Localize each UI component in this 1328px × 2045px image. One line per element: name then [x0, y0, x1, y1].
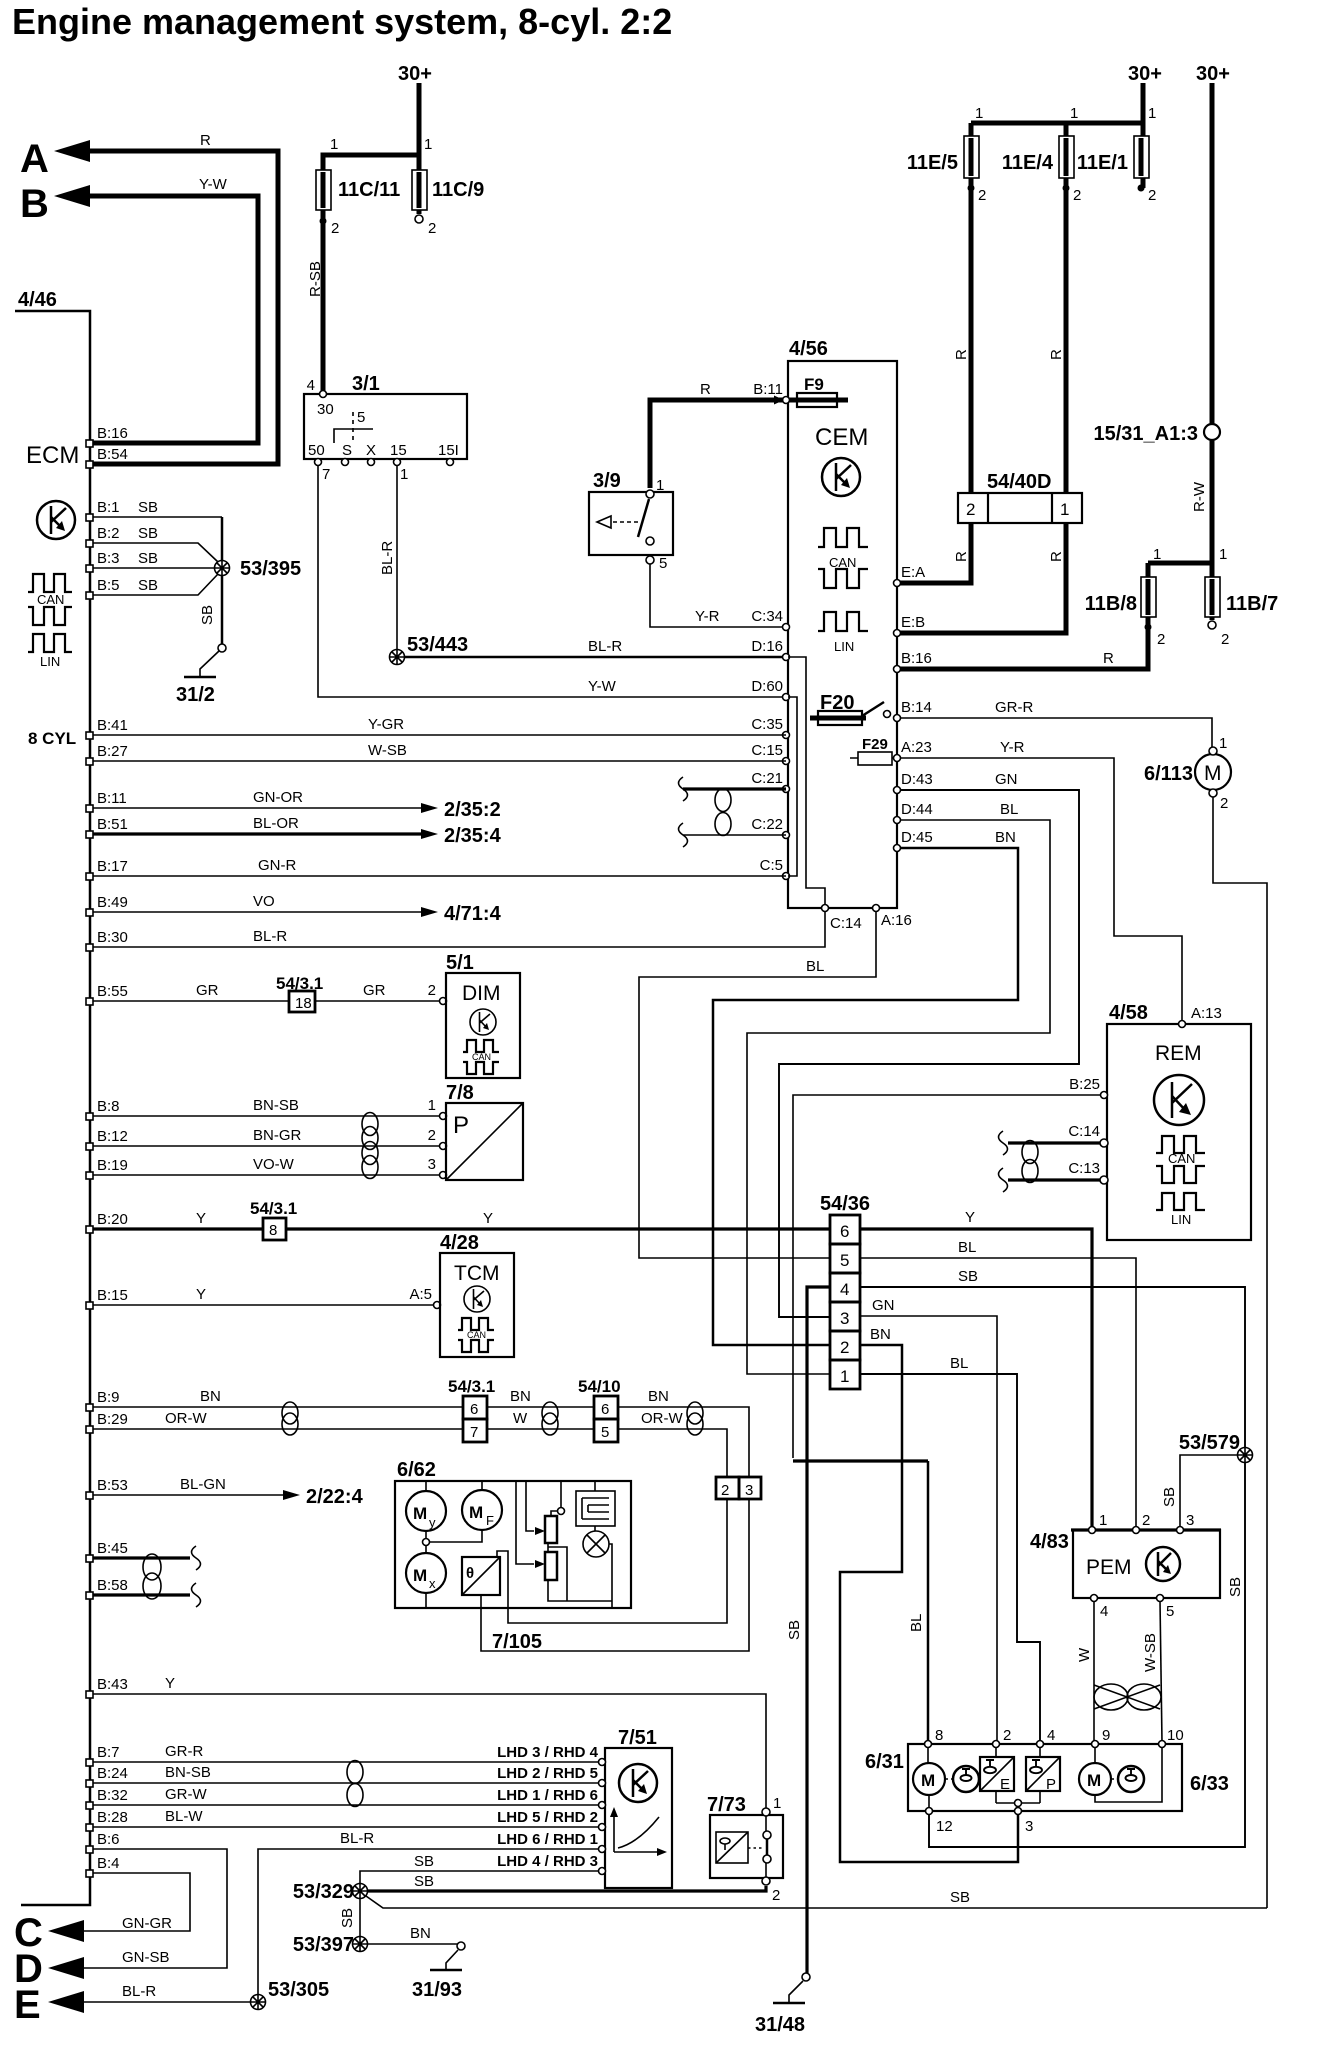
svg-text:BN-SB: BN-SB — [253, 1097, 299, 1114]
wire R-W to 11B fuses — [1148, 440, 1212, 625]
wire BL-GN to 2/22:4 — [93, 1494, 283, 1496]
wire R 11E/4 to 54/40D — [1064, 188, 1069, 493]
svg-text:BN-SB: BN-SB — [165, 1764, 211, 1781]
svg-text:5: 5 — [840, 1251, 849, 1270]
svg-text:θ: θ — [466, 1565, 474, 1582]
svg-text:X: X — [366, 442, 376, 459]
ECM pin B:45 — [86, 1555, 93, 1562]
svg-text:VO-W: VO-W — [253, 1156, 295, 1173]
svg-text:3: 3 — [428, 1156, 436, 1173]
svg-text:Y-W: Y-W — [199, 176, 228, 193]
stub B:45 with break — [93, 1556, 190, 1559]
twisted pair C:21/C:22 — [715, 789, 731, 812]
svg-text:E:B: E:B — [901, 614, 925, 631]
wire Y-R from 3/9 pin 5 to CEM C:34 — [650, 564, 786, 627]
svg-text:VO: VO — [253, 893, 275, 910]
svg-text:B:8: B:8 — [97, 1098, 120, 1115]
wire BL-OR to 2/35:4 — [93, 832, 421, 835]
svg-text:SB: SB — [786, 1620, 803, 1640]
wire BL 54/36-5 to PEM pin 2 — [860, 1258, 1136, 1528]
svg-text:A: A — [20, 137, 49, 181]
svg-text:CAN: CAN — [829, 555, 856, 570]
6/31 pin 3 — [1015, 1808, 1022, 1815]
6/62 temp sensor — [462, 1557, 500, 1595]
svg-text:1: 1 — [1070, 105, 1078, 122]
REM pin C:14 — [1100, 1139, 1108, 1147]
wire Y-W from 3/1 pin 50 to CEM D:60 — [318, 466, 786, 697]
svg-text:F: F — [486, 1513, 494, 1528]
splice 53/329 — [353, 1884, 368, 1899]
svg-text:B:6: B:6 — [97, 1831, 120, 1848]
svg-text:2: 2 — [772, 1887, 780, 1904]
svg-text:GR-R: GR-R — [165, 1743, 203, 1760]
svg-text:31/48: 31/48 — [755, 2014, 805, 2036]
svg-text:GN-SB: GN-SB — [122, 1949, 170, 1966]
6/31 pin 2 — [993, 1741, 1000, 1748]
svg-text:1: 1 — [424, 136, 432, 153]
wire Y B:15 to TCM A:5 — [93, 1304, 434, 1306]
fuse 11E/4 — [1059, 136, 1074, 178]
twisted pair B:9/B:29 — [282, 1402, 298, 1424]
ECM pin B:54 — [86, 461, 93, 468]
ECM pin B:3 — [86, 565, 93, 572]
wire 30+ feed — [323, 83, 419, 393]
wire BL CEM D:44 to 54/36-1 — [747, 820, 1050, 1374]
CEM left pin C:35 — [783, 732, 790, 739]
3/9 switch contacts — [597, 516, 611, 528]
svg-text:4/56: 4/56 — [789, 338, 828, 360]
ECM pin B:58 — [86, 1592, 93, 1599]
svg-text:B:32: B:32 — [97, 1787, 128, 1804]
svg-text:11B/7: 11B/7 — [1226, 593, 1278, 615]
6/31 pin 9 — [1092, 1741, 1099, 1748]
svg-text:1: 1 — [773, 1795, 781, 1812]
svg-text:B:11: B:11 — [97, 790, 127, 807]
ECM pin B:7 — [86, 1759, 93, 1766]
svg-text:C:13: C:13 — [1068, 1160, 1100, 1177]
ECM pin B:12 — [86, 1143, 93, 1150]
svg-text:SB: SB — [414, 1873, 434, 1890]
wire SB 54/36-4 left to ground 31/48 — [807, 1287, 830, 1973]
svg-text:Y: Y — [196, 1210, 206, 1227]
wire VO-W to 7/8 pin 3 — [93, 1174, 440, 1176]
svg-text:9: 9 — [1102, 1727, 1110, 1744]
connector 15/31_A1:3 — [1204, 424, 1220, 440]
svg-text:7: 7 — [322, 466, 330, 483]
wire Y 54/3.1 to 54/36-6 — [286, 1227, 830, 1230]
6/31 valve P — [1026, 1757, 1060, 1791]
ECM pin B:49 — [86, 909, 93, 916]
svg-text:C:14: C:14 — [1068, 1123, 1100, 1140]
svg-text:7: 7 — [470, 1424, 478, 1441]
svg-text:GR: GR — [363, 982, 386, 999]
6/31 motor M right — [1079, 1763, 1111, 1795]
wire OR-W 54/10 to connector 7/105-2 — [618, 1429, 727, 1477]
svg-text:B:4: B:4 — [97, 1855, 120, 1872]
svg-text:4: 4 — [1047, 1727, 1055, 1744]
svg-text:LHD 2 / RHD 5: LHD 2 / RHD 5 — [497, 1765, 598, 1782]
svg-text:A:23: A:23 — [901, 739, 932, 756]
ECM pin B:1 — [86, 514, 93, 521]
svg-text:D:43: D:43 — [901, 771, 933, 788]
wire 30+ bus to fuses — [971, 83, 1143, 188]
ECM pin B:41 — [86, 732, 93, 739]
svg-text:54/3.1: 54/3.1 — [448, 1377, 495, 1396]
svg-text:B:54: B:54 — [97, 446, 128, 463]
svg-text:11C/9: 11C/9 — [432, 179, 484, 201]
svg-text:Y: Y — [165, 1675, 175, 1692]
svg-text:8: 8 — [269, 1222, 277, 1239]
wire Y B:43 to 7/73 pin 1 — [93, 1694, 766, 1808]
svg-text:M: M — [413, 1566, 427, 1585]
svg-text:1: 1 — [1219, 735, 1227, 752]
ECM pin B:17 — [86, 873, 93, 880]
ECM pin B:2 — [86, 540, 93, 547]
svg-text:B:55: B:55 — [97, 983, 128, 1000]
wire R 54/40D-2 to CEM E:A — [900, 523, 971, 583]
fuse 11B/8 — [1141, 577, 1156, 617]
svg-text:C:34: C:34 — [751, 608, 783, 625]
svg-text:50: 50 — [308, 442, 325, 459]
connector 7/105 pins 2/3 — [716, 1477, 739, 1499]
svg-text:1: 1 — [1153, 546, 1161, 563]
svg-text:C:15: C:15 — [751, 742, 783, 759]
svg-text:SB: SB — [339, 1908, 356, 1928]
7/73 sensor box — [716, 1832, 748, 1863]
svg-text:B:19: B:19 — [97, 1157, 128, 1174]
svg-text:SB: SB — [138, 525, 158, 542]
6/62 motor My — [406, 1491, 446, 1531]
7/51 pins — [599, 1759, 606, 1766]
svg-text:1: 1 — [656, 477, 664, 494]
svg-text:R: R — [953, 349, 970, 360]
svg-text:OR-W: OR-W — [165, 1410, 207, 1427]
REM pin B:25 — [1101, 1092, 1108, 1099]
svg-text:W: W — [513, 1410, 528, 1427]
svg-text:F9: F9 — [804, 375, 824, 394]
svg-text:1: 1 — [975, 105, 983, 122]
svg-text:7/105: 7/105 — [492, 1631, 542, 1653]
svg-text:SB: SB — [138, 550, 158, 567]
svg-text:LIN: LIN — [834, 639, 854, 654]
svg-text:6: 6 — [601, 1401, 609, 1418]
svg-text:SB: SB — [1227, 1577, 1244, 1597]
CEM K-symbol — [822, 458, 860, 496]
svg-text:LHD 6 / RHD 1: LHD 6 / RHD 1 — [497, 1831, 598, 1848]
PEM pin 3 — [1177, 1527, 1184, 1534]
svg-text:C:14: C:14 — [830, 915, 862, 932]
svg-text:54/3.1: 54/3.1 — [250, 1199, 297, 1218]
svg-text:8 CYL: 8 CYL — [28, 729, 76, 748]
svg-text:1: 1 — [400, 466, 408, 483]
wire Y B:20 to 54/3.1 pin 8 — [93, 1227, 263, 1230]
twisted pair W/W-SB — [1094, 1684, 1128, 1710]
CEM CAN symbol — [818, 528, 868, 547]
svg-text:SB: SB — [199, 605, 216, 625]
ECM pin B:43 — [86, 1691, 93, 1698]
CEM right pin D:44 — [894, 817, 901, 824]
wire BL-R 53/305 to 7/51 — [258, 1849, 602, 1995]
svg-text:1: 1 — [1099, 1512, 1107, 1529]
wire Y-R CEM A:23 to REM A:13 — [900, 758, 1182, 1021]
CEM right pin E:B — [894, 630, 901, 637]
svg-text:D:16: D:16 — [751, 638, 783, 655]
wire OR-W B:29 to 54/3.1-7 — [93, 1428, 463, 1430]
svg-text:GN-OR: GN-OR — [253, 789, 303, 806]
wire SB 53/329 to 7/51 — [360, 1871, 602, 1883]
CEM right pin A:23 — [894, 755, 901, 762]
svg-text:6: 6 — [470, 1401, 478, 1418]
svg-text:BL-R: BL-R — [253, 928, 287, 945]
CEM right pin D:43 — [894, 787, 901, 794]
svg-text:11E/5: 11E/5 — [907, 152, 958, 174]
svg-text:2: 2 — [1221, 631, 1229, 648]
svg-text:CAN: CAN — [37, 592, 64, 607]
svg-text:2/22:4: 2/22:4 — [306, 1486, 364, 1508]
svg-text:R: R — [953, 551, 970, 562]
fuse 11E/1 — [1134, 136, 1149, 178]
svg-text:53/395: 53/395 — [240, 558, 301, 580]
wire SB splice down to 6/31 pin 12 — [929, 1463, 1245, 1847]
CEM LIN symbol — [818, 612, 868, 631]
svg-text:GN-GR: GN-GR — [122, 1915, 172, 1932]
svg-text:BL-R: BL-R — [340, 1830, 374, 1847]
svg-text:30+: 30+ — [1128, 63, 1162, 85]
svg-text:DIM: DIM — [462, 982, 501, 1005]
svg-text:BL-R: BL-R — [122, 1983, 156, 2000]
svg-text:OR-W: OR-W — [641, 1410, 683, 1427]
svg-text:2: 2 — [721, 1482, 729, 1499]
wire SB B:1 — [93, 516, 222, 518]
svg-text:D:60: D:60 — [751, 678, 783, 695]
svg-text:53/397: 53/397 — [293, 1934, 354, 1956]
svg-text:B:49: B:49 — [97, 894, 128, 911]
svg-text:BL-R: BL-R — [588, 638, 622, 655]
svg-text:2: 2 — [1003, 1727, 1011, 1744]
twisted pair right — [687, 1402, 703, 1424]
svg-text:B:2: B:2 — [97, 525, 120, 542]
svg-text:4/28: 4/28 — [440, 1232, 479, 1254]
ECM pin B:28 — [86, 1824, 93, 1831]
svg-text:CAN: CAN — [1168, 1151, 1195, 1166]
svg-text:B:12: B:12 — [97, 1128, 128, 1145]
svg-text:B:24: B:24 — [97, 1765, 128, 1782]
svg-text:6: 6 — [840, 1222, 849, 1241]
svg-text:3/9: 3/9 — [593, 470, 621, 492]
wire R 54/40D-1 to CEM E:B — [900, 523, 1066, 633]
svg-text:R: R — [1103, 650, 1114, 667]
svg-text:7/8: 7/8 — [446, 1082, 474, 1104]
wire SB 53/329 to 53/397 — [359, 1898, 361, 1937]
svg-text:1: 1 — [840, 1367, 849, 1386]
svg-text:3/1: 3/1 — [352, 373, 380, 395]
CEM right pin B:16 — [894, 666, 901, 673]
6/31 internal wires — [928, 1747, 1162, 1808]
PEM pin 1 — [1089, 1527, 1096, 1534]
svg-text:2: 2 — [1073, 187, 1081, 204]
svg-text:C:5: C:5 — [760, 857, 783, 874]
svg-text:15/31_A1:3: 15/31_A1:3 — [1093, 423, 1198, 445]
wire GR-W B:32 to 7/51 — [93, 1804, 602, 1806]
svg-text:B:53: B:53 — [97, 1477, 128, 1494]
7/73 pin 1 — [762, 1808, 770, 1816]
svg-text:5: 5 — [659, 555, 667, 572]
ECM control module 4/46 bracket — [15, 311, 90, 1905]
ground 31/48 — [802, 1973, 810, 1981]
REM CAN symbol — [1156, 1136, 1205, 1153]
6/31 pin 4 — [1037, 1741, 1044, 1748]
svg-text:P: P — [1046, 1776, 1056, 1793]
svg-text:S: S — [342, 442, 352, 459]
svg-text:B:16: B:16 — [901, 650, 932, 667]
wire SB B:2 — [93, 543, 218, 562]
svg-text:2: 2 — [1148, 187, 1156, 204]
svg-text:R-SB: R-SB — [307, 261, 324, 297]
svg-text:11E/1: 11E/1 — [1077, 152, 1128, 174]
wire SB 53/329 to right SB run — [366, 1896, 1267, 1908]
svg-text:GR: GR — [196, 982, 219, 999]
wire SB 54/36-4 right to splice 53/579 — [860, 1287, 1245, 1447]
svg-text:BN: BN — [870, 1326, 891, 1343]
PEM pin 5 — [1157, 1595, 1164, 1602]
ECM pin B:15 — [86, 1302, 93, 1309]
6/62 heater element — [576, 1491, 615, 1526]
ECM pin B:27 — [86, 758, 93, 765]
wire BN CEM D:45 to 54/36-2 — [713, 848, 1018, 1345]
wire Y-W from ECM B:16 to arrow B — [86, 196, 258, 443]
svg-text:31/2: 31/2 — [176, 684, 215, 706]
svg-text:2: 2 — [1220, 795, 1228, 812]
CEM right pin D:45 — [894, 845, 901, 852]
stub B:58 with break — [93, 1593, 190, 1596]
wire BN-GR to 7/8 pin 2 — [93, 1145, 440, 1147]
7/73 pin 2 — [762, 1877, 770, 1885]
svg-text:BL-OR: BL-OR — [253, 815, 299, 832]
ECM pin B:53 — [86, 1492, 93, 1499]
svg-text:CAN: CAN — [472, 1052, 491, 1062]
PEM pin 4 — [1091, 1595, 1098, 1602]
svg-text:2/35:4: 2/35:4 — [444, 825, 502, 847]
svg-text:M: M — [921, 1771, 935, 1790]
svg-text:B:9: B:9 — [97, 1389, 120, 1406]
6/31 pin 12 — [926, 1808, 933, 1815]
6/31 pin 8 — [925, 1741, 932, 1748]
svg-text:LIN: LIN — [1171, 1212, 1191, 1227]
svg-text:3: 3 — [745, 1482, 753, 1499]
wire BN-SB B:24 to 7/51 — [93, 1782, 602, 1784]
svg-text:B:7: B:7 — [97, 1744, 120, 1761]
wire R from 3/9 pin 1 to CEM B:11 — [650, 400, 785, 488]
svg-text:Engine management system, 8-cy: Engine management system, 8-cyl. 2:2 — [12, 1, 672, 42]
CEM left pin C:15 — [783, 758, 790, 765]
svg-text:BN: BN — [410, 1925, 431, 1942]
wire Y-GR B:41 to CEM C:35 — [93, 734, 786, 736]
svg-text:Y-R: Y-R — [1000, 739, 1025, 756]
svg-text:1: 1 — [1219, 546, 1227, 563]
svg-text:BL: BL — [908, 1614, 925, 1632]
CEM left pin D:16 — [783, 654, 790, 661]
CEM left pin D:60 — [783, 694, 790, 701]
ECM pin B:19 — [86, 1172, 93, 1179]
svg-text:2: 2 — [978, 187, 986, 204]
svg-text:BN: BN — [200, 1388, 221, 1405]
ground 31/2 — [200, 651, 219, 677]
6/62 motor Mx — [406, 1553, 446, 1593]
svg-text:F29: F29 — [862, 736, 888, 753]
ECM pin B:11 — [86, 805, 93, 812]
svg-text:GR-R: GR-R — [995, 699, 1033, 716]
svg-text:R: R — [1048, 551, 1065, 562]
svg-text:W: W — [1076, 1647, 1093, 1662]
wire BN 53/397 to ground 31/93 — [368, 1943, 458, 1945]
ECM pin B:16 — [86, 440, 93, 447]
wire GR 54/3.1 to DIM pin 2 — [315, 1000, 440, 1002]
svg-text:SB: SB — [958, 1268, 978, 1285]
svg-text:W-SB: W-SB — [368, 742, 407, 759]
ECM pin B:5 — [86, 592, 93, 599]
svg-text:B:5: B:5 — [97, 577, 120, 594]
svg-text:B:30: B:30 — [97, 929, 128, 946]
svg-text:4: 4 — [840, 1280, 849, 1299]
wire Y 54/36-6 to PEM pin 1 — [860, 1229, 1092, 1528]
svg-text:BN-GR: BN-GR — [253, 1127, 302, 1144]
ECM pin B:20 — [86, 1226, 93, 1233]
svg-text:B:16: B:16 — [97, 425, 128, 442]
REM pin A:13 — [1179, 1021, 1186, 1028]
ECM pin B:6 — [86, 1846, 93, 1853]
wire SB B:3 — [93, 567, 214, 569]
wire W-SB PEM-5 to 6/31 pin 10 — [1160, 1601, 1162, 1742]
svg-text:LHD 1 / RHD 6: LHD 1 / RHD 6 — [497, 1787, 598, 1804]
svg-text:Y: Y — [196, 1286, 206, 1303]
wire BL 54/36-1 to 6/31 pin 4 — [860, 1374, 1040, 1742]
ECM CAN symbol — [28, 574, 72, 592]
svg-text:2/35:2: 2/35:2 — [444, 799, 501, 821]
svg-text:CEM: CEM — [815, 424, 868, 451]
svg-text:B:45: B:45 — [97, 1540, 128, 1557]
svg-text:R: R — [1048, 349, 1065, 360]
wire GN-OR to 2/35:2 — [93, 807, 421, 809]
wire B:6 to arrow D — [70, 1849, 227, 1968]
svg-text:B:17: B:17 — [97, 858, 128, 875]
svg-text:12: 12 — [936, 1818, 953, 1835]
svg-text:4/58: 4/58 — [1109, 1002, 1148, 1024]
6/62 internal wires — [426, 1481, 482, 1608]
svg-text:ECM: ECM — [26, 442, 79, 469]
wire BL-R splice to CEM D:16 — [404, 656, 786, 659]
svg-text:2: 2 — [966, 500, 975, 519]
svg-text:Y: Y — [965, 1209, 975, 1226]
svg-text:D:45: D:45 — [901, 829, 933, 846]
svg-text:53/305: 53/305 — [268, 1979, 329, 2001]
svg-text:PEM: PEM — [1086, 1556, 1132, 1579]
svg-text:2: 2 — [428, 1127, 436, 1144]
wire BN 54/3.1 to 54/10 — [487, 1406, 594, 1408]
splice 53/305 — [251, 1995, 266, 2010]
fuse 11E/5 — [964, 136, 979, 178]
twisted pair mid — [542, 1402, 558, 1424]
PEM pin 2 — [1133, 1527, 1140, 1534]
7/73 switch contacts — [763, 1831, 771, 1839]
svg-text:A:16: A:16 — [881, 912, 912, 929]
wire SB B:5 — [93, 574, 218, 595]
svg-text:2: 2 — [840, 1338, 849, 1357]
svg-text:M: M — [413, 1504, 427, 1523]
svg-text:2: 2 — [1142, 1512, 1150, 1529]
svg-text:B:51: B:51 — [97, 816, 128, 833]
wire BL-R CEM C:14 to ECM B:30 — [93, 912, 825, 947]
svg-text:B:3: B:3 — [97, 550, 120, 567]
